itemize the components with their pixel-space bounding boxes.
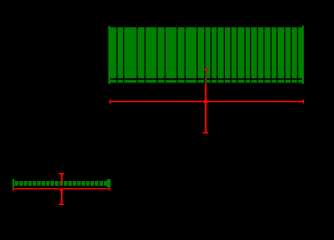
top vertical error bar: segment over green block (blended) [205,70,207,84]
mini horizontal error bar: right tick [109,187,111,190]
top vertical error bar: top cap [204,69,209,71]
mini pulse-train: bright left edge [12,179,14,187]
top horizontal error bar: line [110,101,304,102]
top pulse-train: green base strip [109,80,304,83]
mini horizontal error bar: left tick [12,187,14,190]
top horizontal error bar: right tick [303,100,305,104]
mini vertical error bar: lower segment [61,188,63,204]
top vertical error bar: bright segment below block [205,84,207,132]
mini marker bulge below axis [60,189,63,191]
top pulse-train: bright right edge line [302,26,304,84]
top vertical error bar: bottom cap [203,132,208,134]
mini pulse-train: dashes [15,181,108,186]
top horizontal error bar: left tick [109,100,111,104]
top pulse-train: black gaps between pulses [116,27,298,84]
mini horizontal error bar: line [13,188,111,189]
mini pulse-train: bright right edge [107,179,111,187]
crossing dot of top error bars [204,100,208,103]
top pulse-train: bright left edge line [108,26,110,84]
mini vertical error bar: bottom cap [59,204,64,205]
mini vertical error bar: upper segment [61,175,63,182]
dim overlay at mini crossing [59,188,63,189]
mini vertical error bar: top cap [59,173,64,175]
mini marker blob above axis [59,186,63,188]
top pulse-train: green bar fill [109,27,304,78]
mini vertical error bar: segment over dashes (blended) [61,181,63,186]
